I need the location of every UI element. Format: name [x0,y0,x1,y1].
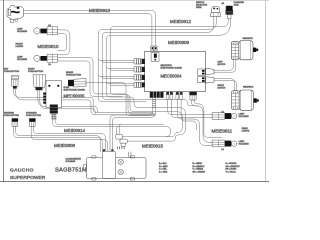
wire battery cable from board bottom [110,98,153,152]
wire lamp loop front [58,30,70,55]
board MEC50005 slam module [43,81,61,114]
svg-text:R = ROSSO: R = ROSSO [226,163,237,165]
svg-text:N = NERO: N = NERO [193,163,203,165]
svg-text:RS = ROSA: RS = ROSA [226,168,237,171]
svg-text:MOTOR: MOTOR [218,64,226,66]
wire plug C short tail [192,100,199,106]
svg-text:MEIE0812: MEIE0812 [170,19,192,24]
svg-text:G = GIAL: G = GIAL [159,170,168,173]
wire reverse down right [14,127,103,153]
wire brake to bus [86,83,155,116]
wire accel plug up to corridor [117,127,119,135]
svg-text:M = MAR: M = MAR [159,165,168,168]
svg-text:PUSH-BUTTON: PUSH-BUTTON [66,75,81,77]
wire bus verticals descending left-center [98,34,146,102]
svg-text:GEARBOX: GEARBOX [243,37,254,40]
svg-text:MEIE0814: MEIE0814 [64,128,86,133]
wire selector pair down to bus [102,16,214,36]
connector board bottom plug A [166,92,173,100]
wire branches from bus to board left plugs [98,58,134,60]
wire plug A down right to upper rear lamp [168,99,213,114]
wire steering pair to board top [24,11,156,46]
svg-text:AR = ARANCIO: AR = ARANCIO [226,165,241,168]
svg-text:GR = GRIGIO: GR = GRIGIO [193,171,206,173]
connector start button plug [33,75,46,90]
frame bottom border [0,181,269,183]
wire MEC50005 cable down then right [53,114,171,137]
connector wire-end plugs left of board (ribbed) [134,59,141,88]
connector reverse button plug [12,118,18,126]
svg-text:LIGHTS: LIGHTS [16,46,24,48]
wire charger pair down and left bus [110,19,228,31]
motor M1 upper with gearbox [231,41,258,60]
svg-text:SUPERPOWER: SUPERPOWER [10,175,46,181]
svg-text:VI = VIOLA: VI = VIOLA [226,170,237,173]
svg-text:PUSH BUTTON: PUSH BUTTON [4,115,19,117]
connector board bottom: black block [150,92,164,98]
svg-text:PUSH BUTTON: PUSH BUTTON [26,115,41,117]
legend col3 [226,163,241,173]
frame left border [3,0,5,182]
svg-text:PUSH-BUTTON: PUSH-BUTTON [4,71,19,73]
svg-text:MEIE0810: MEIE0810 [38,44,60,49]
legend wire colors col1 [159,163,168,173]
connector brake switch [68,78,86,87]
connector board bottom plug B [176,92,183,100]
connector X1 steering harness plug [7,5,23,22]
svg-text:JACK: JACK [234,4,240,7]
wire forward down right [31,127,107,152]
svg-text:GAUCHO: GAUCHO [10,167,34,173]
accelerator plug assembly [116,134,128,149]
connector selector switch plug [210,6,220,16]
svg-text:HOLDERS: HOLDERS [239,116,250,118]
svg-text:MEIE0809: MEIE0809 [168,40,190,45]
wire lamp feed to bus [58,57,155,114]
svg-text:PUSH-BUTTON: PUSH-BUTTON [28,71,43,73]
svg-text:BI = BIANCO: BI = BIANCO [193,165,205,168]
lamp rear upper [212,113,237,120]
page top edge shading [0,0,269,2]
svg-text:MEIE0808: MEIE0808 [54,143,76,148]
connector forward button plug [29,118,35,126]
wire right motor plug to lower motor [214,79,235,91]
connector charger jack [226,6,234,19]
board cable ribs [152,100,155,108]
motor M2 lower with gearbox [232,90,259,110]
svg-text:C = CEL: C = CEL [159,169,168,171]
svg-text:MEIE0815: MEIE0815 [142,144,164,149]
connector 2-pin header above board [151,46,157,51]
lamp rear lower [212,140,237,147]
battery main box [84,149,146,180]
svg-text:HOLDERS: HOLDERS [17,59,28,61]
svg-text:GEARBOX: GEARBOX [243,85,254,88]
svg-text:ELECTRONIC BOARD: ELECTRONIC BOARD [161,67,183,70]
svg-text:MOTOR: MOTOR [218,88,226,90]
lamp L2 front lower symbol [34,54,58,62]
connector key switch plug [11,75,18,88]
connector board bottom plug C [189,92,196,100]
svg-text:HOLDERS: HOLDERS [17,31,28,33]
lamp L1 front upper symbol [34,27,58,35]
svg-text:LIGHTS: LIGHTS [242,131,250,133]
connector board right outputs [198,69,206,83]
svg-text:MEIE0811: MEIE0811 [212,128,233,133]
wire start plug down right [38,90,98,112]
svg-text:HOLDERS: HOLDERS [239,144,250,146]
svg-text:B = BLU: B = BLU [159,163,167,165]
wire left motor plug to upper motor [214,60,233,71]
connector motor plugs (trapezoids) [206,68,214,74]
svg-text:SAGB751N: SAGB751N [55,167,86,173]
page right edge shading [265,1,267,182]
svg-text:ELECTRONIC BOARD: ELECTRONIC BOARD [64,88,86,91]
wire plug B down right then down to lower rear lamp [177,99,212,145]
legend col2 [193,163,206,173]
svg-text:V = VERDE: V = VERDE [193,169,204,171]
svg-text:WIRE: WIRE [196,7,202,9]
wire key plug down right [14,89,153,113]
connector board left pin combs [142,59,145,88]
svg-text:MEIE0813: MEIE0813 [89,8,111,13]
board MEC50004 selector electronic board [145,51,206,91]
svg-text:MEC50005: MEC50005 [64,94,86,99]
svg-text:HOUSING: HOUSING [66,161,76,163]
svg-text:MEC50004: MEC50004 [161,74,183,79]
